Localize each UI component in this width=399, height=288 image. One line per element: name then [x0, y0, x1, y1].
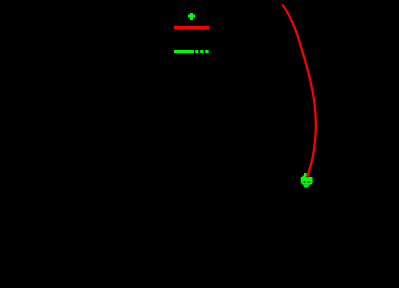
legend key: red solid line: [174, 26, 209, 29]
legend key: green dashed line: [174, 50, 209, 53]
red trajectory curve: [282, 5, 316, 178]
green marker cluster: overlapping plus markers: [301, 173, 313, 187]
legend point marker: green plus: [188, 13, 195, 20]
